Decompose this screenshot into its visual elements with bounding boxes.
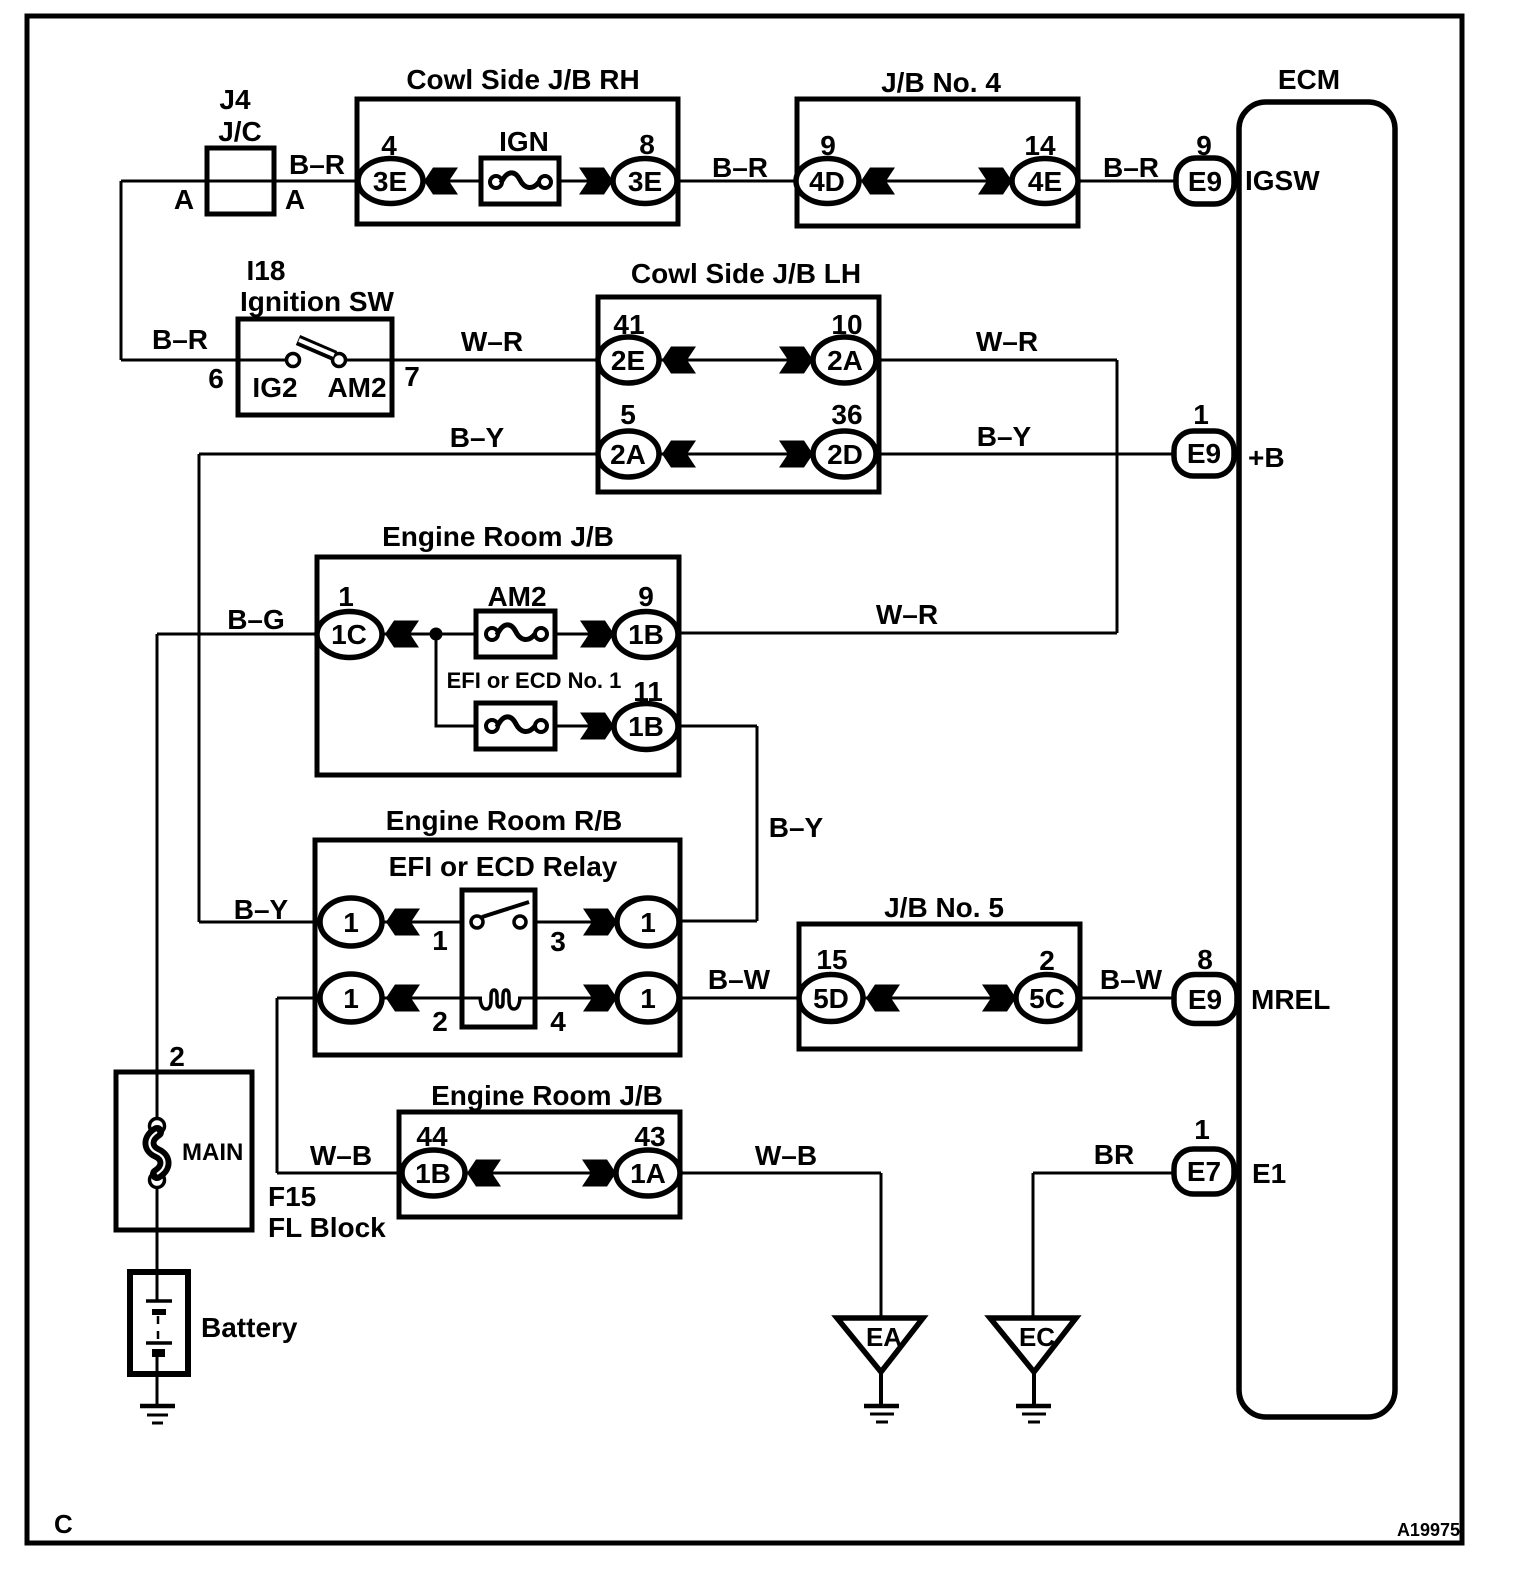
svg-text:B–Y: B–Y <box>234 894 289 925</box>
svg-text:EA: EA <box>866 1322 902 1352</box>
svg-text:5C: 5C <box>1029 983 1065 1014</box>
arrow toward 4E(14) <box>978 168 1012 195</box>
wire inside Engine Room R/B from relay coil terminal 4 <box>518 997 618 1000</box>
fusible link box F15 FL Block MAIN <box>116 1072 252 1230</box>
junction box Cowl Side J/B LH <box>598 297 879 492</box>
ground EC triangle <box>990 1318 1076 1372</box>
svg-text:EFI or ECD Relay: EFI or ECD Relay <box>389 851 618 882</box>
svg-text:4E: 4E <box>1028 166 1062 197</box>
arrow toward relay right connector 1 bottom <box>583 985 617 1012</box>
relay coil <box>480 990 520 1009</box>
junction box J/B No.4 <box>797 99 1078 226</box>
svg-text:W–R: W–R <box>976 326 1038 357</box>
svg-text:A: A <box>285 184 305 215</box>
relay connector 1 top left <box>320 898 382 946</box>
svg-text:9: 9 <box>820 130 836 161</box>
arrow toward 5C(2) <box>982 985 1016 1012</box>
wire W-B from corner to Engine Room J/B 1B(44) <box>277 1172 402 1175</box>
svg-text:8: 8 <box>1197 944 1213 975</box>
ECM connector E9 pin 9 IGSW <box>1176 158 1234 204</box>
relay connector 1 top right <box>617 898 679 946</box>
arrow into 1C(1) <box>385 621 419 648</box>
relay box Engine Room R/B <box>315 840 680 1055</box>
wire inside Engine Room R/B relay contact to right connector <box>535 921 618 924</box>
svg-text:W–R: W–R <box>461 326 523 357</box>
wire inside Engine Room J/B from fuse AM2 to 1B(9) <box>555 633 615 636</box>
arrow toward 2A(10) <box>779 347 813 374</box>
wire inside Cowl Side J/B RH from 3E(4) to fuse IGN <box>423 180 481 183</box>
wire W-R from Ignition SW terminal 7 AM2 to Cowl Side J/B LH 2E(41) <box>345 359 598 362</box>
wire B-R from J4 to Cowl Side J/B RH connector 3E(4) <box>121 180 357 183</box>
wire inside Engine Room R/B into relay coil <box>381 997 482 1000</box>
wire W-R from 2A(10) rightward <box>876 359 1117 362</box>
svg-text:AM2: AM2 <box>327 372 386 403</box>
wire BR vertical down to ground EC <box>1032 1173 1035 1319</box>
svg-text:3E: 3E <box>628 166 662 197</box>
fuse AM2 body <box>476 611 555 657</box>
ECM connector E9 pin 1 +B <box>1174 431 1234 476</box>
svg-text:B–R: B–R <box>289 149 345 180</box>
wire B-G from battery feed to Engine Room J/B 1C(1) <box>157 633 317 636</box>
svg-text:6: 6 <box>208 363 224 394</box>
junction node dot in Engine Room J/B <box>430 628 443 641</box>
svg-text:B–W: B–W <box>708 964 771 995</box>
svg-text:1: 1 <box>343 907 359 938</box>
arrow into 2A(5) <box>662 441 696 468</box>
svg-text:1: 1 <box>432 925 448 956</box>
svg-text:14: 14 <box>1024 130 1056 161</box>
arrow into 2E(41) <box>662 347 696 374</box>
svg-text:Engine Room R/B: Engine Room R/B <box>386 805 622 836</box>
connector 1A pin 43 <box>616 1150 680 1196</box>
arrow out of fuse IGN <box>579 168 613 195</box>
wire from relay coil terminal 2 leftward <box>277 997 321 1000</box>
svg-text:Cowl Side J/B RH: Cowl Side J/B RH <box>406 64 639 95</box>
wire W-R vertical down <box>1116 360 1119 633</box>
svg-text:8: 8 <box>639 129 655 160</box>
arrow into 5D(15) <box>866 985 900 1012</box>
connector 2E pin 41 <box>598 337 659 383</box>
wire W-B from 1A(43) rightward <box>679 1172 881 1175</box>
svg-text:IGSW: IGSW <box>1245 165 1320 196</box>
svg-text:4: 4 <box>381 130 397 161</box>
relay connector 1 bottom left <box>320 974 382 1022</box>
svg-text:J/C: J/C <box>218 116 262 147</box>
svg-text:9: 9 <box>1196 130 1212 161</box>
svg-text:E9: E9 <box>1188 984 1222 1015</box>
svg-text:B–W: B–W <box>1100 964 1163 995</box>
ground symbol below battery <box>140 1404 175 1409</box>
svg-text:MAIN: MAIN <box>182 1139 243 1166</box>
connector 5C pin 2 <box>1016 975 1078 1022</box>
svg-text:B–R: B–R <box>712 152 768 183</box>
connector 3E pin 4 <box>358 159 423 204</box>
svg-text:3: 3 <box>550 926 566 957</box>
wire B-Y from 2D(36) to ECM pin E9-1 +B <box>876 453 1176 456</box>
svg-text:2D: 2D <box>827 439 863 470</box>
wire B-Y vertical from corner down to EFI relay row <box>198 454 201 922</box>
svg-text:1: 1 <box>343 983 359 1014</box>
svg-text:1C: 1C <box>331 619 367 650</box>
battery box <box>130 1272 188 1374</box>
arrow toward 1B(9) <box>580 621 614 648</box>
relay connector 1 bottom right <box>617 974 679 1022</box>
svg-text:1: 1 <box>1193 399 1209 430</box>
wire B-W from relay to J/B No.5 5D(15) <box>679 997 799 1000</box>
arrow toward relay right connector 1 top <box>583 909 617 936</box>
ECM connector E9 pin 8 MREL <box>1174 975 1237 1024</box>
fuse IGN element <box>490 176 502 188</box>
wire inside Engine Room J/B from 1B(44) to 1A(43) <box>464 1172 617 1175</box>
connector 1B pin 9 <box>614 612 678 658</box>
svg-text:E9: E9 <box>1188 166 1222 197</box>
svg-text:Engine Room J/B: Engine Room J/B <box>431 1080 663 1111</box>
svg-text:F15: F15 <box>268 1181 316 1212</box>
svg-text:FL Block: FL Block <box>268 1212 386 1243</box>
svg-text:A: A <box>174 184 194 215</box>
svg-text:AM2: AM2 <box>487 581 546 612</box>
wire B-Y from 1B(11) rightward <box>677 725 757 728</box>
svg-text:B–R: B–R <box>1103 152 1159 183</box>
arrow toward 1B(11) <box>580 713 614 740</box>
fuse IGN body <box>481 158 559 204</box>
battery plates <box>146 1299 172 1303</box>
svg-text:J/B No. 5: J/B No. 5 <box>884 892 1004 923</box>
connector 1C pin 1 <box>317 612 382 658</box>
svg-text:E9: E9 <box>1187 438 1221 469</box>
junction box Cowl Side J/B RH <box>357 99 678 224</box>
wire inside Cowl Side J/B LH from 2A(5) to 2D(36) <box>659 453 814 456</box>
svg-text:W–B: W–B <box>310 1140 372 1171</box>
svg-text:J4: J4 <box>219 84 251 115</box>
wire vertical battery feed down to MAIN fusible link <box>156 634 159 1120</box>
svg-text:1A: 1A <box>630 1158 666 1189</box>
svg-text:4D: 4D <box>809 166 845 197</box>
svg-text:2A: 2A <box>610 439 646 470</box>
svg-text:2: 2 <box>169 1041 185 1072</box>
svg-text:41: 41 <box>613 309 644 340</box>
ignition switch contact AM2 <box>333 354 346 367</box>
wire B-R from 3E(8) to J/B No.4 connector 4D(9) <box>677 180 797 183</box>
svg-text:5: 5 <box>620 399 636 430</box>
arrow toward 1A(43) <box>582 1160 616 1187</box>
wire from MAIN fusible link to battery positive <box>156 1186 159 1301</box>
wire from junction node down to fuse EFI or ECD No.1 <box>436 634 476 726</box>
connector 5D pin 15 <box>799 975 863 1022</box>
ground EA triangle <box>837 1318 923 1372</box>
svg-text:Engine Room J/B: Engine Room J/B <box>382 521 614 552</box>
wire from fuse EFI or ECD No.1 to 1B(11) <box>555 725 615 728</box>
svg-text:E1: E1 <box>1252 1158 1286 1189</box>
arrow into relay connector 1 bottom <box>386 985 420 1012</box>
arrow into 4D(9) <box>861 168 895 195</box>
junction box Engine Room J/B <box>317 557 679 775</box>
fuse AM2 element <box>486 628 498 640</box>
svg-text:J/B No. 4: J/B No. 4 <box>881 67 1001 98</box>
ignition switch I18 box <box>238 319 392 415</box>
ECM connector E7 pin 1 E1 <box>1174 1149 1234 1194</box>
wire B-R from corner into Ignition SW terminal 6 IG2 <box>121 359 287 362</box>
wire B-R from 4E(14) to ECM pin E9-9 IGSW <box>1077 180 1176 183</box>
wire W-R leftward to Engine Room J/B 1B(9) <box>678 632 1117 635</box>
wire B-Y leftward into EFI relay terminal 3 output <box>679 920 757 923</box>
connector 2A pin 5 <box>598 431 659 477</box>
svg-text:EFI or ECD No. 1: EFI or ECD No. 1 <box>447 668 622 693</box>
svg-text:B–Y: B–Y <box>450 422 505 453</box>
svg-text:36: 36 <box>831 399 862 430</box>
svg-text:B–Y: B–Y <box>769 812 824 843</box>
ignition switch contact IG2 <box>287 354 300 367</box>
svg-text:43: 43 <box>634 1121 665 1152</box>
svg-text:2: 2 <box>432 1006 448 1037</box>
svg-text:+B: +B <box>1248 442 1285 473</box>
svg-text:9: 9 <box>638 581 654 612</box>
wire inside J/B No.4 from 4D to 4E <box>859 180 1013 183</box>
svg-text:7: 7 <box>404 361 420 392</box>
junction box J/B No.5 <box>799 924 1080 1049</box>
fuse EFI or ECD No.1 element <box>486 720 498 732</box>
svg-text:1: 1 <box>1194 1114 1210 1145</box>
arrow into 3E(4) <box>424 168 458 195</box>
connector 2A pin 10 <box>813 337 876 383</box>
svg-text:I18: I18 <box>247 255 286 286</box>
wire inside Cowl Side J/B LH from 2E to 2A(10) <box>659 359 814 362</box>
wire B-Y into EFI relay left connector 1 <box>199 921 321 924</box>
svg-text:Cowl Side J/B LH: Cowl Side J/B LH <box>631 258 861 289</box>
junction box Engine Room J/B lower <box>399 1112 680 1217</box>
connector 2D pin 36 <box>813 431 876 477</box>
connector 4D pin 9 <box>796 159 859 204</box>
svg-text:W–B: W–B <box>755 1140 817 1171</box>
connector 1B pin 11 <box>614 704 678 750</box>
wire B-W from 5C(2) to ECM pin E9-8 MREL <box>1077 997 1176 1000</box>
arrow into relay connector 1 top <box>386 909 420 936</box>
ECM box <box>1239 102 1395 1417</box>
svg-text:10: 10 <box>831 309 862 340</box>
svg-text:Battery: Battery <box>201 1312 298 1343</box>
svg-text:2: 2 <box>1039 945 1055 976</box>
arrow toward 2D(36) <box>779 441 813 468</box>
wire inside Engine Room J/B from 1C to fuse AM2 <box>381 633 476 636</box>
svg-text:2A: 2A <box>827 345 863 376</box>
wire inside Cowl Side J/B RH from fuse IGN to 3E(8) <box>559 180 614 183</box>
relay contact lever <box>482 902 529 917</box>
svg-text:2E: 2E <box>611 345 645 376</box>
wire BR from corner to ECM pin E7-1 E1 <box>1033 1172 1176 1175</box>
svg-text:MREL: MREL <box>1251 984 1330 1015</box>
svg-text:ECM: ECM <box>1278 64 1340 95</box>
fuse EFI or ECD No.1 body <box>476 703 555 749</box>
svg-text:1B: 1B <box>628 619 664 650</box>
wire inside J/B No.5 from 5D to 5C <box>862 997 1017 1000</box>
svg-text:BR: BR <box>1094 1139 1134 1170</box>
relay contact circles <box>471 916 483 928</box>
wire B-Y from corner to Cowl Side J/B LH 2A(5) <box>199 453 598 456</box>
svg-text:A19975: A19975 <box>1397 1520 1460 1540</box>
wire inside Engine Room R/B from connector to relay contact <box>381 921 462 924</box>
MAIN fusible link symbol <box>150 1119 165 1134</box>
arrow into 1B(44) <box>467 1160 501 1187</box>
ignition switch lever <box>298 340 335 356</box>
svg-text:1B: 1B <box>415 1158 451 1189</box>
svg-text:B–R: B–R <box>152 324 208 355</box>
wire B-Y vertical down beside relay <box>756 726 759 921</box>
svg-text:3E: 3E <box>373 166 407 197</box>
svg-text:1: 1 <box>338 581 354 612</box>
connector 4E pin 14 <box>1012 159 1078 204</box>
svg-text:EC: EC <box>1019 1322 1055 1352</box>
svg-text:W–R: W–R <box>876 599 938 630</box>
svg-text:B–Y: B–Y <box>977 421 1032 452</box>
svg-text:B–G: B–G <box>227 604 285 635</box>
svg-text:1: 1 <box>640 907 656 938</box>
svg-text:44: 44 <box>416 1121 448 1152</box>
svg-text:11: 11 <box>633 676 663 707</box>
svg-text:4: 4 <box>550 1006 566 1037</box>
svg-text:E7: E7 <box>1187 1156 1221 1187</box>
connector 1B pin 44 <box>402 1150 465 1196</box>
wire from battery negative to ground <box>156 1355 159 1405</box>
wire vertical B-R from J4 node A down to Ignition SW <box>120 181 123 360</box>
connector 3E pin 8 <box>613 159 677 204</box>
svg-text:15: 15 <box>816 944 847 975</box>
wire W-B vertical down to Engine Room J/B <box>276 998 279 1173</box>
wire W-B vertical down to ground EA <box>880 1173 883 1319</box>
svg-text:IG2: IG2 <box>252 372 297 403</box>
svg-text:Ignition SW: Ignition SW <box>240 286 395 317</box>
svg-text:1B: 1B <box>628 711 664 742</box>
svg-text:1: 1 <box>640 983 656 1014</box>
EFI or ECD relay body <box>462 890 535 1027</box>
svg-text:IGN: IGN <box>499 126 549 157</box>
svg-text:5D: 5D <box>813 983 849 1014</box>
junction connector J4 J/C box <box>207 148 274 214</box>
svg-text:C: C <box>54 1509 73 1539</box>
